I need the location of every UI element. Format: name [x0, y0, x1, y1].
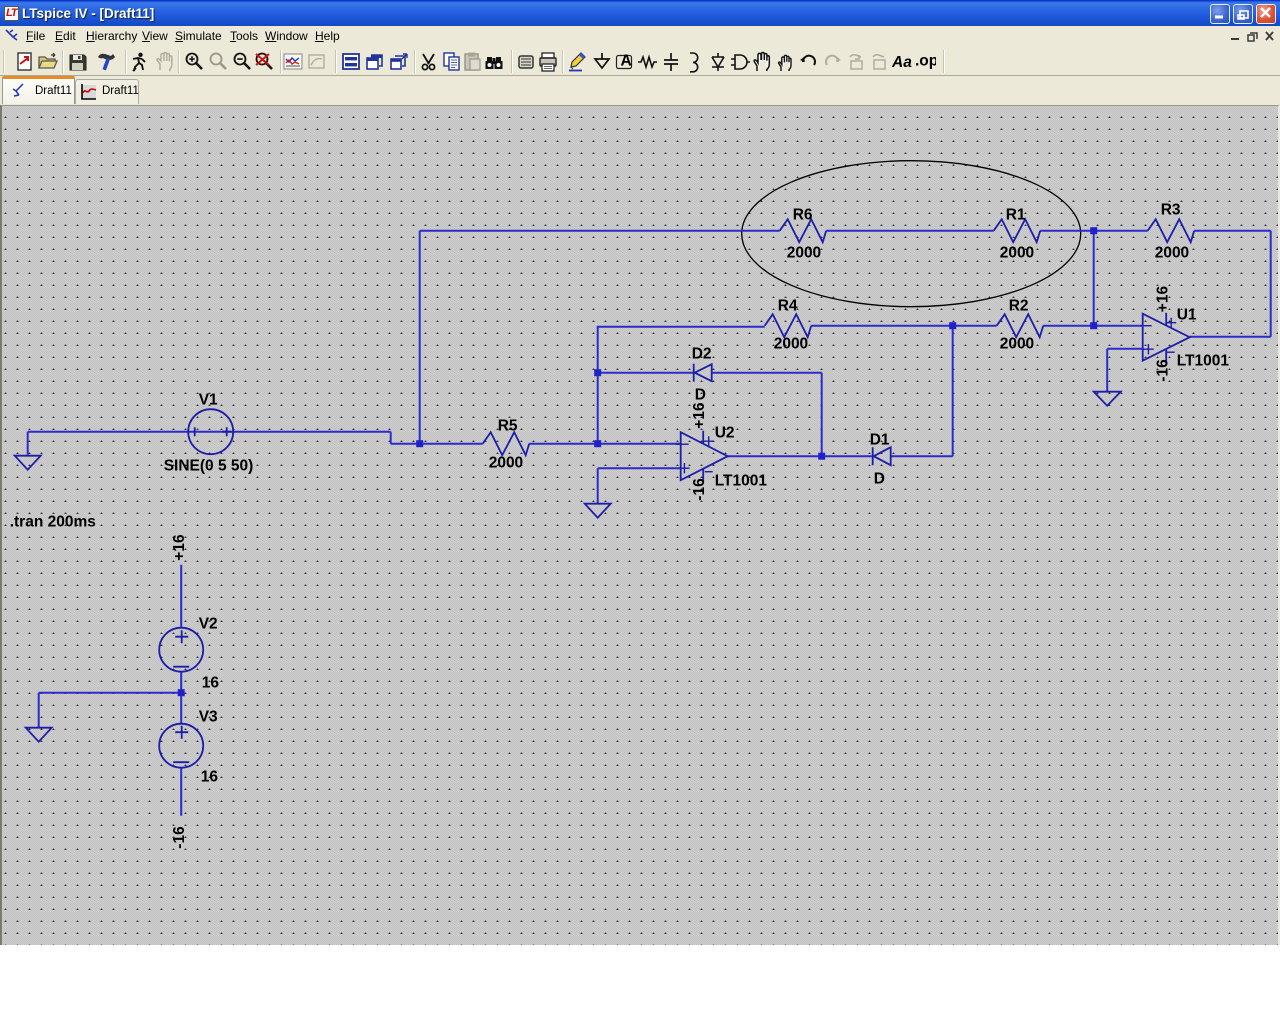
svg-text:16: 16 — [202, 675, 220, 692]
svg-text:U2: U2 — [715, 425, 735, 442]
svg-text:V3: V3 — [199, 709, 218, 726]
svg-text:Aa: Aa — [891, 54, 912, 71]
svg-text:2000: 2000 — [489, 455, 523, 472]
svg-text:D: D — [874, 471, 885, 488]
svg-text:2000: 2000 — [787, 245, 821, 262]
svg-text:D2: D2 — [692, 346, 712, 363]
svg-text:R5: R5 — [498, 418, 518, 435]
svg-text:A: A — [621, 53, 632, 70]
svg-text:2000: 2000 — [1000, 245, 1034, 262]
svg-text:-16: -16 — [171, 826, 188, 849]
svg-text:16: 16 — [201, 769, 219, 786]
svg-text:2000: 2000 — [774, 336, 808, 353]
svg-text:+16: +16 — [691, 402, 708, 429]
svg-text:+16: +16 — [1155, 286, 1172, 313]
svg-text:R1: R1 — [1006, 207, 1026, 224]
svg-text:R3: R3 — [1161, 202, 1181, 219]
svg-text:U1: U1 — [1177, 307, 1197, 324]
svg-text:V1: V1 — [199, 392, 218, 409]
svg-text:SINE(0 5 50): SINE(0 5 50) — [164, 458, 254, 475]
svg-text:R2: R2 — [1009, 298, 1029, 315]
svg-text:.op: .op — [915, 53, 936, 70]
svg-text:-16: -16 — [691, 478, 708, 501]
svg-text:R4: R4 — [778, 298, 798, 315]
svg-text:-16: -16 — [1155, 359, 1172, 382]
svg-text:R6: R6 — [793, 207, 813, 224]
svg-text:LT1001: LT1001 — [1177, 353, 1230, 370]
svg-text:2000: 2000 — [1000, 336, 1034, 353]
svg-text:D: D — [695, 387, 706, 404]
svg-text:D1: D1 — [870, 432, 890, 449]
svg-text:LT1001: LT1001 — [715, 473, 768, 490]
svg-text:V2: V2 — [199, 616, 218, 633]
svg-text:2000: 2000 — [1155, 245, 1189, 262]
svg-text:+16: +16 — [171, 534, 188, 561]
svg-text:.tran 200ms: .tran 200ms — [10, 514, 96, 531]
